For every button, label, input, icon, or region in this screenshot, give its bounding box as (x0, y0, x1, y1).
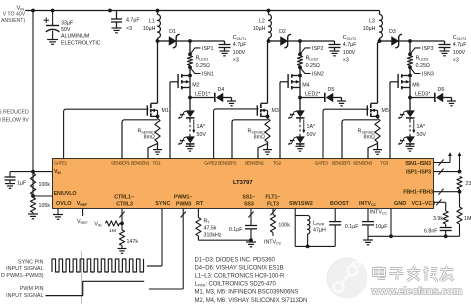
svg-text:6.8nF: 6.8nF (424, 228, 438, 234)
svg-text:×3: ×3 (453, 57, 459, 63)
svg-text:M1, M3, M5: INFINEON BSC039N06: M1, M3, M5: INFINEON BSC039N06NS (195, 290, 299, 296)
svg-text:L2: L2 (259, 19, 265, 25)
svg-text:33µF: 33µF (61, 20, 74, 26)
svg-text:50V: 50V (417, 132, 427, 138)
svg-text:M6: M6 (412, 83, 419, 89)
svg-text:LED3*: LED3* (415, 92, 430, 98)
svg-text:SYNC PIN: SYNC PIN (18, 260, 44, 266)
svg-text:100V: 100V (233, 50, 246, 56)
svg-text:M2: M2 (192, 83, 199, 89)
svg-text:10µH: 10µH (143, 26, 156, 32)
svg-text:D3: D3 (389, 29, 396, 35)
svg-text:M3: M3 (272, 108, 279, 114)
svg-text:0.1µF: 0.1µF (229, 227, 243, 233)
svg-text:LED2*: LED2* (305, 92, 320, 98)
svg-text:SENSEP3: SENSEP3 (332, 161, 351, 166)
svg-text:4.7µF: 4.7µF (453, 42, 467, 48)
svg-text:8mΩ: 8mΩ (254, 135, 265, 141)
svg-text:4.7µF: 4.7µF (233, 42, 247, 48)
svg-text:LED1*: LED1* (195, 92, 210, 98)
svg-text:10µH: 10µH (253, 26, 266, 32)
svg-text:D PWM1–PWM3): D PWM1–PWM3) (1, 273, 44, 279)
svg-text:ISP3: ISP3 (422, 46, 434, 52)
svg-text:M4: M4 (302, 83, 309, 89)
svg-text:GATE2: GATE2 (204, 161, 218, 166)
svg-text:1A*: 1A* (417, 124, 426, 130)
svg-text:LT3797: LT3797 (233, 180, 253, 186)
svg-text:4.7µF: 4.7µF (343, 42, 357, 48)
svg-text:D4: D4 (218, 87, 225, 93)
svg-text:D4–D6: VISHAY SILICONIX ES1B: D4–D6: VISHAY SILICONIX ES1B (195, 266, 284, 272)
svg-text:LPWR: COILTRONICS SD25-470: LPWR: COILTRONICS SD25-470 (195, 282, 277, 288)
svg-text:N BELOW 9V: N BELOW 9V (0, 118, 29, 124)
svg-text:L1: L1 (149, 19, 155, 25)
svg-text:RT: RT (196, 201, 204, 207)
svg-text:D1: D1 (169, 29, 176, 35)
svg-text:GATE3: GATE3 (315, 161, 329, 166)
svg-text:8mΩ: 8mΩ (144, 135, 155, 141)
svg-text:www.elecfans.com: www.elecfans.com (371, 286, 463, 298)
svg-text:SENSEN2: SENSEN2 (245, 161, 265, 166)
svg-text:×3: ×3 (233, 57, 239, 63)
svg-text:8mΩ: 8mΩ (364, 135, 375, 141)
svg-text:SENSEP1: SENSEP1 (111, 161, 130, 166)
svg-text:BOOST: BOOST (330, 201, 350, 207)
svg-text:D6: D6 (438, 87, 445, 93)
svg-text:FBH1–FBH3: FBH1–FBH3 (403, 190, 433, 196)
svg-text:ISN1: ISN1 (202, 72, 214, 78)
svg-text:23.2k: 23.2k (466, 181, 471, 187)
svg-text:50V: 50V (61, 27, 71, 33)
svg-text:47µH: 47µH (313, 227, 326, 233)
svg-text:CTRL1–: CTRL1– (114, 194, 134, 200)
svg-text:FLT3: FLT3 (267, 201, 279, 207)
svg-text:105k: 105k (39, 203, 51, 209)
svg-text:100V: 100V (453, 50, 466, 56)
svg-text:1A*: 1A* (307, 124, 316, 130)
svg-text:M5: M5 (382, 108, 389, 114)
svg-text:D2: D2 (279, 29, 286, 35)
svg-text:CTRL3: CTRL3 (116, 201, 133, 207)
svg-text:PWM PIN: PWM PIN (20, 286, 44, 292)
svg-text:L3: L3 (369, 19, 375, 25)
svg-text:TG1: TG1 (153, 161, 162, 166)
svg-text:OVLO: OVLO (56, 201, 72, 207)
svg-text:EN/UVLO: EN/UVLO (54, 191, 77, 197)
svg-text:147k: 147k (127, 239, 139, 245)
svg-text:SENSEN3: SENSEN3 (353, 161, 373, 166)
svg-text:D5: D5 (328, 87, 335, 93)
svg-text:1µF: 1µF (17, 180, 27, 186)
svg-text:4.7µF: 4.7µF (126, 18, 140, 24)
svg-text:SS3: SS3 (244, 201, 254, 207)
svg-text:FLT1–: FLT1– (265, 194, 280, 200)
svg-text:GND: GND (394, 201, 406, 207)
svg-text:10µF: 10µF (375, 224, 388, 230)
svg-text:SW1SW2: SW1SW2 (289, 201, 313, 207)
svg-text:310kHz: 310kHz (204, 232, 222, 238)
svg-text:SENSEP2: SENSEP2 (218, 161, 237, 166)
svg-text:×3: ×3 (126, 26, 132, 32)
svg-text:0.25Ω: 0.25Ω (416, 63, 430, 69)
svg-text:PWM1–: PWM1– (174, 194, 192, 200)
svg-text:0.25Ω: 0.25Ω (306, 63, 320, 69)
svg-text:V TO 40V: V TO 40V (3, 11, 26, 17)
svg-text:1A*: 1A* (197, 124, 206, 130)
svg-text:50V: 50V (197, 132, 207, 138)
svg-text:INPUT SIGNAL: INPUT SIGNAL (6, 266, 43, 272)
svg-text:ISN1–ISN3: ISN1–ISN3 (405, 161, 431, 167)
svg-text:GATE1: GATE1 (54, 161, 68, 166)
svg-text:TG3: TG3 (380, 161, 389, 166)
svg-text:SYNC: SYNC (155, 201, 170, 207)
svg-text:PWM3: PWM3 (176, 201, 192, 207)
svg-text:10µH: 10µH (363, 26, 376, 32)
svg-text:SS1–: SS1– (242, 194, 255, 200)
svg-text:ISN2: ISN2 (312, 72, 324, 78)
svg-text:3.9k: 3.9k (433, 216, 443, 222)
svg-text:TG2: TG2 (273, 161, 282, 166)
svg-text:0.25Ω: 0.25Ω (196, 63, 210, 69)
svg-text:ISN3: ISN3 (422, 72, 434, 78)
svg-text:M2, M4, M6: VISHAY SILICONIX S: M2, M4, M6: VISHAY SILICONIX Si7113DN (195, 298, 308, 304)
svg-text:VC1–VC3: VC1–VC3 (412, 201, 436, 207)
svg-text:D1–D3: DIODES INC. PDS360: D1–D3: DIODES INC. PDS360 (195, 258, 276, 264)
svg-text:ISP1–ISP3: ISP1–ISP3 (406, 170, 431, 176)
svg-text:100k: 100k (39, 182, 51, 188)
svg-text:SENSEN1: SENSEN1 (131, 161, 151, 166)
svg-text:L1–L3: COILTRONICS HC9-100-R: L1–L3: COILTRONICS HC9-100-R (195, 274, 286, 280)
svg-text:M1: M1 (162, 108, 169, 114)
svg-text:1M: 1M (464, 216, 471, 222)
svg-text:ANSIENT): ANSIENT) (1, 18, 25, 24)
svg-text:100k: 100k (278, 223, 290, 229)
svg-text:INPUT SIGNAL: INPUT SIGNAL (6, 293, 43, 299)
svg-text:47.5k: 47.5k (204, 226, 217, 232)
svg-text:ISP1: ISP1 (202, 46, 214, 52)
svg-text:ISP2: ISP2 (312, 46, 324, 52)
svg-text:ELECTROLYTIC: ELECTROLYTIC (61, 40, 101, 46)
svg-text:100V: 100V (343, 50, 356, 56)
svg-text:S REDUCED: S REDUCED (0, 110, 29, 116)
svg-text:50V: 50V (307, 132, 317, 138)
svg-text:×3: ×3 (343, 57, 349, 63)
svg-text:0.1µF: 0.1µF (345, 224, 359, 230)
svg-text:1M: 1M (109, 228, 116, 234)
svg-text:ALUMINUM: ALUMINUM (61, 34, 89, 40)
